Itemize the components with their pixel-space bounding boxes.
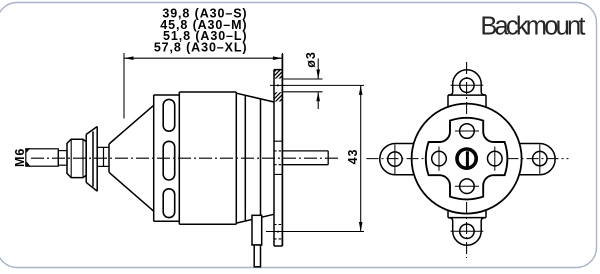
- svg-text:57,8 (A30–XL): 57,8 (A30–XL): [154, 41, 248, 55]
- svg-text:ø3: ø3: [304, 51, 318, 67]
- svg-text:Backmount: Backmount: [480, 13, 585, 41]
- svg-text:43: 43: [346, 149, 360, 165]
- svg-text:M6: M6: [13, 148, 27, 167]
